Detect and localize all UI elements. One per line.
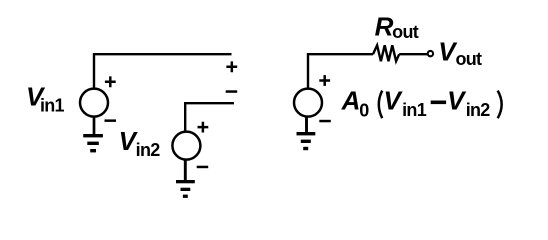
ground under dependent source [297, 132, 316, 150]
plus label at differential input terminal [226, 61, 237, 72]
dependent source U1 A0(Vin1-Vin2) [294, 89, 322, 117]
wire V_in1 bottom to ground [93, 117, 96, 135]
minus polarity mark of V_in2 [197, 166, 209, 169]
ground under V_in1 [83, 134, 103, 152]
svg-text:in2: in2 [466, 100, 491, 120]
resistor R_out [373, 45, 399, 61]
wire from dependent source top to resistor [308, 54, 373, 88]
voltage source V_in1 [80, 89, 108, 117]
svg-text:A: A [341, 86, 361, 116]
minus label at differential input terminal [226, 90, 238, 93]
minus polarity mark of dependent source [319, 120, 331, 123]
svg-text:0: 0 [359, 101, 369, 121]
svg-text:in1: in1 [402, 100, 427, 120]
wire resistor to output terminal [399, 53, 427, 55]
close parenthesis of gain expression [498, 91, 502, 119]
plus polarity mark of V_in2 [198, 122, 209, 133]
wire dependent source bottom to ground [305, 117, 308, 133]
svg-text:V: V [447, 86, 467, 116]
wire from Vin2 source top to minus input terminal [185, 103, 234, 132]
plus polarity mark of dependent source [319, 75, 330, 86]
svg-text:V: V [384, 86, 404, 116]
voltage source V_in2 [172, 132, 200, 160]
plus polarity mark of V_in1 [105, 76, 116, 87]
wire from Vin1 source top to plus input terminal [94, 54, 232, 88]
output terminal node Vout (open circle) [428, 51, 433, 56]
wire V_in2 bottom to ground [184, 160, 187, 181]
ground under V_in2 [176, 180, 195, 198]
minus polarity mark of V_in1 [105, 119, 117, 122]
open parenthesis of gain expression [379, 91, 382, 119]
minus sign of gain expression [431, 101, 446, 105]
